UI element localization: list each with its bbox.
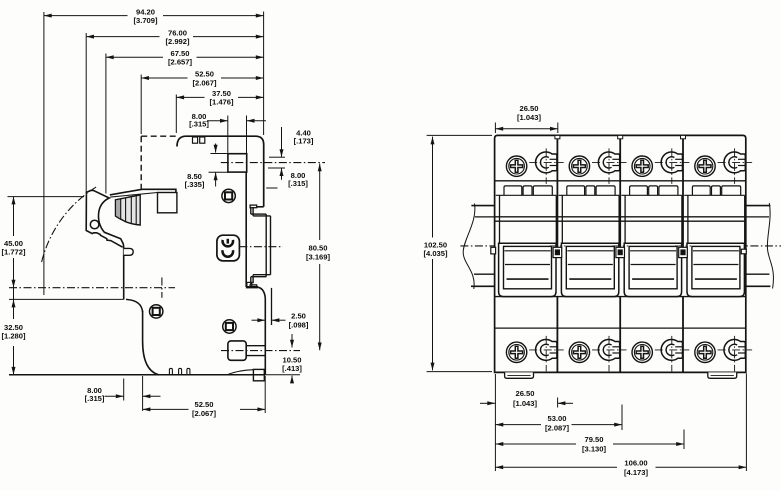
svg-text:79.50: 79.50 [584, 435, 603, 444]
svg-text:[1.280]: [1.280] [1, 331, 26, 340]
svg-text:[1.043]: [1.043] [513, 399, 538, 408]
svg-text:52.50: 52.50 [194, 400, 213, 409]
svg-text:[1.476]: [1.476] [209, 98, 234, 107]
svg-text:106.00: 106.00 [624, 458, 647, 467]
svg-text:[3.709]: [3.709] [133, 16, 158, 25]
svg-text:[1.043]: [1.043] [517, 113, 542, 122]
svg-text:[.335]: [.335] [185, 180, 205, 189]
svg-text:[2.087]: [2.087] [545, 423, 570, 432]
svg-text:2.50: 2.50 [291, 312, 306, 321]
svg-text:[3.130]: [3.130] [582, 444, 607, 453]
svg-text:[3.169]: [3.169] [306, 252, 331, 261]
svg-text:80.50: 80.50 [308, 244, 327, 253]
svg-text:[4.173]: [4.173] [624, 468, 649, 477]
svg-text:[.173]: [.173] [294, 137, 314, 146]
svg-text:[.413]: [.413] [282, 364, 302, 373]
svg-text:[2.657]: [2.657] [168, 58, 193, 67]
svg-text:[2.067]: [2.067] [192, 409, 217, 418]
svg-text:53.00: 53.00 [547, 414, 566, 423]
svg-text:26.50: 26.50 [515, 389, 534, 398]
svg-text:[4.035]: [4.035] [423, 249, 448, 258]
svg-text:[.098]: [.098] [289, 320, 309, 329]
svg-text:[2.992]: [2.992] [165, 37, 190, 46]
svg-text:[1.772]: [1.772] [1, 248, 26, 257]
svg-text:[.315]: [.315] [85, 394, 105, 403]
svg-text:[.315]: [.315] [189, 120, 209, 129]
svg-text:[2.067]: [2.067] [192, 78, 217, 87]
svg-text:[.315]: [.315] [288, 179, 308, 188]
